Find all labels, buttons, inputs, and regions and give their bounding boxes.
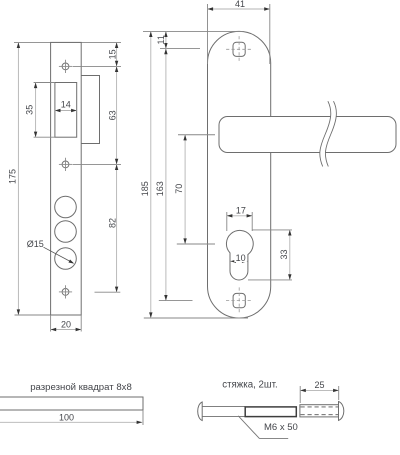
svg-text:стяжка, 2шт.: стяжка, 2шт. xyxy=(222,379,277,390)
svg-text:100: 100 xyxy=(59,412,74,422)
svg-text:41: 41 xyxy=(235,0,245,9)
svg-text:175: 175 xyxy=(8,169,18,184)
svg-text:M6 x 50: M6 x 50 xyxy=(264,422,298,433)
svg-text:70: 70 xyxy=(174,184,184,194)
svg-text:33: 33 xyxy=(279,249,289,259)
svg-text:35: 35 xyxy=(25,105,35,115)
svg-text:11: 11 xyxy=(156,35,166,44)
svg-text:185: 185 xyxy=(140,181,150,196)
svg-text:разрезной квадрат 8х8: разрезной квадрат 8х8 xyxy=(30,382,132,393)
svg-text:82: 82 xyxy=(107,218,117,228)
svg-text:25: 25 xyxy=(314,380,324,390)
svg-text:14: 14 xyxy=(61,99,71,109)
svg-text:15: 15 xyxy=(107,49,117,59)
svg-text:20: 20 xyxy=(61,320,71,330)
svg-text:63: 63 xyxy=(107,110,117,120)
svg-text:Ø15: Ø15 xyxy=(27,239,44,249)
svg-text:17: 17 xyxy=(236,206,246,216)
svg-text:163: 163 xyxy=(155,181,165,196)
svg-text:10: 10 xyxy=(236,253,246,263)
